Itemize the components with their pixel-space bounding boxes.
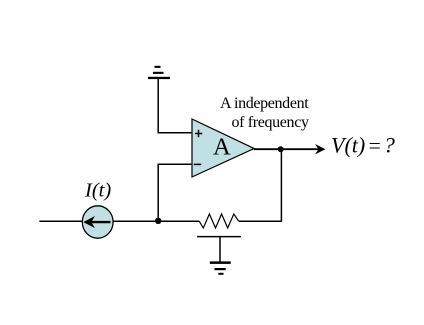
wire op-amp output to arrow (254, 148, 319, 150)
svg-text:of frequency: of frequency (232, 114, 309, 131)
svg-text:V(t): V(t) (331, 132, 365, 157)
wire output node down right side (280, 149, 282, 221)
svg-text:=: = (367, 133, 382, 157)
junction dot at output node (278, 146, 284, 152)
wire bottom right horizontal (resistor to right riser) (239, 220, 282, 222)
svg-text:A independent: A independent (220, 95, 309, 112)
wire non-inverting (+) input horizontal segment (158, 132, 193, 134)
svg-text:A: A (213, 134, 231, 161)
current source I1 arrow (83, 216, 110, 228)
op-amp U1 minus pin label (194, 163, 201, 165)
op-amp U1 plus pin label (195, 130, 202, 137)
output label V(t) = ? (331, 132, 396, 157)
annotation text: A independent of frequency (220, 95, 309, 131)
output arrowhead (315, 144, 326, 154)
wire from inverting input down to bottom node A (157, 164, 159, 221)
wire capacitor plate down to GND2 (219, 237, 221, 262)
capacitor C1 top plate (197, 236, 241, 238)
op-amp U1 (gain A) (192, 119, 254, 177)
svg-text:?: ? (384, 132, 396, 157)
wire bottom left horizontal (input through current source to node A and resistor) (39, 220, 199, 222)
ground GND2 (bottom) (210, 261, 231, 274)
current source I1 circle (82, 206, 113, 238)
junction dot at node A (155, 218, 161, 224)
resistor R1 zigzag (199, 214, 239, 228)
svg-text:I(t): I(t) (84, 180, 111, 202)
ground GND1 (top, flipped, at non-inverting input) (148, 66, 170, 79)
wire from GND1 down to non-inverting input node (157, 79, 159, 133)
wire inverting (-) input horizontal segment (158, 163, 193, 165)
